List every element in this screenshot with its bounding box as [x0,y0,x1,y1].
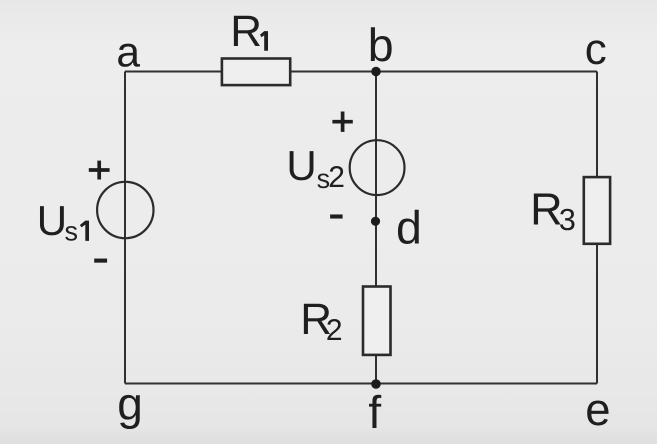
voltage source Us1 [37,161,154,261]
node b dot [371,67,381,77]
svg-text:U: U [286,142,316,189]
svg-text:R: R [530,183,563,234]
plus Us2 [332,112,352,132]
svg-text:f: f [368,386,381,438]
minus Us1 [94,259,107,263]
svg-text:e: e [585,384,610,435]
svg-text:s: s [65,217,79,247]
svg-text:2: 2 [326,314,343,347]
svg-text:a: a [116,29,140,76]
resistor R1 [222,7,290,85]
minus Us2 [330,214,343,218]
wire right c-e [596,72,598,384]
svg-text:b: b [368,19,394,71]
voltage source Us2 [286,112,404,217]
svg-text:2: 2 [328,161,345,194]
resistor R2 [300,287,390,355]
node f dot [371,379,381,389]
resistor R3 [530,177,610,244]
svg-text:g: g [117,377,143,429]
wire left a-g [124,72,126,384]
svg-text:3: 3 [559,203,576,237]
plus Us1 [89,161,110,180]
wire bottom g-f-e [125,383,597,385]
svg-text:U: U [37,197,67,244]
svg-text:c: c [585,25,607,74]
wire top a-b-c [125,71,597,73]
node d dot [371,217,380,226]
svg-text:R: R [230,7,262,56]
svg-text:d: d [396,201,422,253]
wire middle b-d-f [375,72,377,384]
